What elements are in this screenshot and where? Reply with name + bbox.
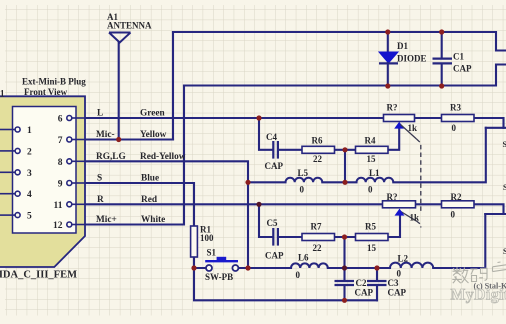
pin 7 (67, 137, 85, 142)
svg-text:100: 100 (200, 233, 214, 243)
svg-text:0: 0 (451, 210, 456, 220)
junction: Red row / C5 branch (256, 202, 261, 207)
wire: White row pin12 (72, 223, 184, 225)
svg-text:Blue: Blue (141, 174, 159, 184)
wire: R5 to pot2 wiper (388, 216, 400, 237)
svg-text:L: L (97, 109, 103, 119)
svg-text:0: 0 (397, 269, 402, 279)
svg-text:Red: Red (141, 195, 158, 205)
potentiometer R? (upper) (384, 115, 415, 122)
resistor R7 (302, 234, 335, 241)
svg-text:ANTENNA: ANTENNA (107, 21, 152, 31)
pin 3 (0, 170, 20, 175)
wire: vertical from top wire down to Yellow row (172, 32, 174, 140)
wire: C3 vertical (376, 268, 378, 300)
inductor L6 (291, 263, 328, 268)
capacitor C3 symbol (367, 281, 387, 285)
wire: Yellow row pin7 (72, 138, 173, 140)
svg-text:L1: L1 (369, 168, 380, 178)
svg-text:C2: C2 (356, 278, 367, 288)
svg-text:Front View: Front View (24, 87, 68, 97)
svg-text:R6: R6 (312, 136, 323, 146)
svg-text:S1: S1 (207, 248, 217, 258)
svg-text:DIODE: DIODE (397, 54, 427, 64)
junction: D1 anode on top net (385, 29, 390, 34)
wire: second top net (Mic+ to right edge) (184, 65, 506, 86)
wire: top net (antenna/Mic- to right edge) (173, 32, 506, 51)
svg-text:RG,LG: RG,LG (96, 152, 126, 162)
svg-text:Mic+: Mic+ (96, 215, 117, 225)
junction: R7-R5 node (342, 234, 347, 239)
junction: Red-Yellow drop on switch row (245, 265, 250, 270)
svg-text:L5: L5 (298, 168, 309, 178)
pin 8 (67, 159, 85, 164)
junction: antenna to Mic- row (116, 137, 121, 142)
wire: R7 to R5 with drop (335, 237, 356, 268)
wire: pot2 to R2 (416, 203, 442, 205)
wire: D1 vertical (387, 32, 389, 86)
svg-text:White: White (141, 215, 165, 225)
potentiometer R? (lower) (383, 201, 416, 208)
svg-text:C5: C5 (267, 218, 278, 228)
junction: C1 bottom (439, 83, 444, 88)
wire: L5 L1 row (248, 128, 486, 183)
svg-text:R: R (97, 195, 104, 205)
junction: Green row / C4 branch (256, 115, 261, 120)
svg-text:22: 22 (313, 154, 323, 164)
svg-text:4: 4 (27, 190, 32, 200)
svg-text:R7: R7 (311, 222, 322, 232)
watermark hanzi shu (数) hand-drawn outline (452, 267, 468, 283)
svg-text:0: 0 (296, 270, 301, 280)
svg-text:MyDigit: MyDigit (451, 287, 506, 304)
wire: ground return bottom (194, 268, 377, 300)
wire: R2 to right edge with step (474, 204, 504, 214)
pin 9 (67, 181, 85, 186)
wire: C4 to R6 (279, 149, 302, 151)
svg-text:CAP: CAP (265, 161, 284, 171)
svg-text:Red-Yellow: Red-Yellow (140, 152, 186, 162)
svg-text:0: 0 (368, 185, 373, 195)
connector MDA_C_III_FEM body (0, 96, 85, 267)
wire: Green row pin6 to pot R? (72, 117, 384, 119)
pin 11 (67, 202, 85, 207)
wire: Blue row pin9 with drop to R1 (72, 183, 194, 226)
svg-text:C4: C4 (266, 132, 277, 142)
svg-text:CAP: CAP (265, 251, 284, 261)
svg-text:CAP: CAP (453, 64, 472, 74)
capacitor C2 symbol (335, 281, 355, 285)
pin 4 (0, 191, 20, 196)
junction: C3 top on L2 row (374, 265, 379, 270)
svg-text:Yellow: Yellow (140, 130, 167, 140)
junction: R6-R4 node to L5-L1 node (342, 147, 347, 152)
svg-text:Green: Green (140, 109, 165, 119)
wire: R3 to right edge with step (474, 118, 504, 128)
wire: L2 to right vertical (433, 214, 485, 268)
svg-text:S: S (503, 140, 506, 149)
svg-text:L2: L2 (398, 254, 409, 264)
junction: C2 bottom on ground wire (342, 298, 347, 303)
potentiometer R? upper wiper arrow (394, 122, 404, 129)
pin 12 (67, 222, 85, 227)
svg-text:0: 0 (452, 123, 457, 133)
svg-text:R5: R5 (365, 222, 376, 232)
junction: L5-L1 node (342, 180, 347, 185)
pin 5 (0, 213, 20, 218)
svg-text:Ext-Mini-B Plug: Ext-Mini-B Plug (22, 77, 86, 87)
resistor R4 (356, 146, 389, 153)
watermark hanzi ma (码) hand-drawn outline (470, 268, 487, 281)
svg-text:S: S (97, 174, 102, 184)
junction: L6-L2 node / C2 top (342, 265, 347, 270)
wire: R6 to R4 with drop to L row (335, 150, 356, 183)
capacitor C4 symbol (273, 141, 278, 159)
switch S1 SW-PB (205, 257, 238, 271)
wire: C2 vertical (343, 268, 345, 300)
svg-text:11: 11 (54, 201, 63, 211)
resistor R6 (302, 146, 335, 153)
svg-text:Mic-: Mic- (96, 130, 115, 140)
svg-text:5: 5 (27, 212, 32, 222)
antenna A1 symbol (109, 33, 131, 43)
svg-text:3: 3 (27, 169, 32, 179)
wire: switch to L6 (238, 267, 291, 269)
wire: right edge stub upper (486, 127, 506, 129)
svg-text:L6: L6 (298, 253, 309, 263)
svg-text:R?: R? (387, 192, 398, 202)
wire: R1 bottom to switch row (194, 257, 206, 268)
junction: Red-Yellow drop on L5 row (245, 180, 250, 185)
svg-text:1: 1 (27, 126, 32, 136)
svg-text:12: 12 (53, 221, 63, 231)
resistor R5 (356, 234, 389, 241)
svg-text:R3: R3 (450, 103, 461, 113)
svg-text:9: 9 (58, 180, 63, 190)
svg-text:22: 22 (313, 243, 323, 253)
svg-text:0: 0 (300, 185, 305, 195)
svg-text:6: 6 (58, 115, 63, 125)
svg-text:SW-PB: SW-PB (205, 272, 233, 282)
wire: C5 to R7 (279, 236, 302, 238)
inductor L1 (357, 178, 394, 183)
svg-text:C3: C3 (388, 278, 399, 288)
gang dashed link between pots (401, 125, 421, 228)
wire: right edge stub lower (485, 213, 506, 215)
wire: pot1 to R3 (415, 117, 442, 119)
resistor R2 (442, 201, 475, 208)
svg-text:8: 8 (58, 158, 63, 168)
inductor L2 (390, 263, 433, 268)
svg-text:MDA_C_III_FEM: MDA_C_III_FEM (0, 270, 77, 281)
junction: C1 top (439, 29, 444, 34)
wire: C1 vertical (441, 32, 443, 86)
pin 1 (0, 127, 20, 132)
pin 2 (0, 148, 20, 153)
pin 6 (67, 116, 85, 121)
svg-text:CAP: CAP (355, 288, 374, 298)
svg-text:7: 7 (58, 136, 63, 146)
resistor R1 (vertical) (191, 226, 198, 257)
svg-text:1k: 1k (410, 213, 420, 223)
antenna A1 lead (118, 43, 120, 140)
wire: C5 branch from Red row (259, 204, 273, 237)
diode D1 symbol (379, 52, 398, 63)
wire: C4 branch from Green row (259, 118, 273, 150)
wire: Red row pin11 to pot2 (72, 203, 383, 205)
wire: vertical from second top wire down to White row (183, 86, 185, 225)
capacitor C1 symbol (433, 59, 453, 64)
resistor R3 (442, 115, 475, 122)
svg-text:R?: R? (387, 103, 398, 113)
svg-text:1: 1 (0, 89, 5, 99)
svg-text:R4: R4 (365, 136, 376, 146)
potentiometer R? lower wiper arrow (395, 209, 405, 216)
wire: L6 to L2 (328, 267, 390, 269)
svg-text:C1: C1 (453, 52, 464, 62)
junction: R1 bottom / switch left (191, 265, 196, 270)
svg-text:2: 2 (27, 147, 32, 157)
wire: R4 to pot1 wiper (388, 129, 399, 150)
wire: Red-Yellow row pin8 with drop to L5 row (72, 161, 248, 268)
svg-text:D1: D1 (397, 41, 408, 51)
junction: D1 cathode on lower net (385, 83, 390, 88)
watermark hanzi partial third char (493, 262, 506, 272)
capacitor C5 symbol (273, 228, 278, 246)
inductor L5 (286, 178, 323, 183)
svg-text:R2: R2 (451, 192, 462, 202)
svg-text:CAP: CAP (388, 288, 407, 298)
svg-text:15: 15 (367, 243, 377, 253)
svg-text:15: 15 (367, 154, 377, 164)
